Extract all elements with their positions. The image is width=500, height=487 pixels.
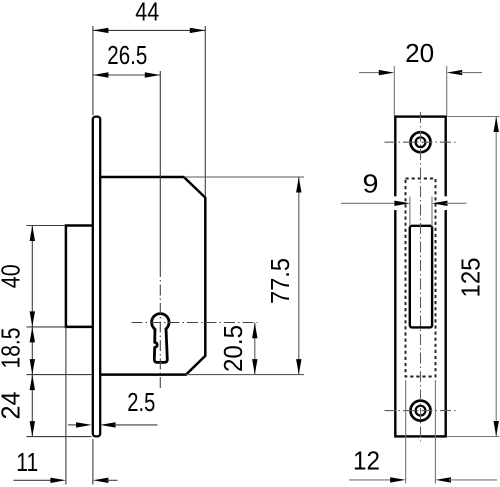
extension lines for 9 (bolt slot) (410, 197, 432, 227)
front view vertical centerline (420, 112, 422, 442)
svg-text:11: 11 (16, 447, 38, 477)
svg-text:20.5: 20.5 (218, 325, 248, 372)
dimension 11 (14, 447, 118, 483)
svg-text:9: 9 (363, 168, 379, 198)
extension line body top to right (184, 176, 304, 178)
striker plate outline (front view) (395, 117, 445, 437)
svg-text:18.5: 18.5 (0, 328, 26, 369)
extension line body right (x=205.3) (204, 26, 206, 196)
bottom screw hole (411, 401, 431, 421)
dimension 12 (349, 446, 497, 483)
label 40 (0, 264, 26, 288)
label 20.5 (218, 325, 248, 372)
dimension 125 (494, 117, 499, 437)
dimension 26.5 (93, 40, 160, 78)
dimension 44 (93, 0, 205, 33)
extension line housing left down (for 11) (65, 327, 67, 485)
svg-text:77.5: 77.5 (265, 258, 295, 304)
dimension 77.5 (296, 177, 301, 375)
breaks in plate edges where dimension 9 crosses (393, 196, 449, 210)
top screw hole (411, 132, 431, 152)
cylinder housing box protruding left (66, 226, 93, 327)
svg-text:2.5: 2.5 (127, 387, 155, 417)
keyhole (152, 314, 169, 363)
bolt slot opening (410, 226, 432, 328)
keyhole horizontal centerline (132, 322, 258, 324)
extension lines for 125 (front view right) (447, 117, 500, 437)
faceplate (side view, thin vertical plate) (93, 117, 100, 437)
svg-text:12: 12 (353, 446, 380, 476)
svg-text:26.5: 26.5 (107, 40, 147, 70)
top screw hole horizontal centerline (385, 141, 457, 143)
dimension 20 (359, 38, 482, 75)
extension line housing bottom (27, 326, 65, 328)
extension line left edge (x=92.9 top) (92, 26, 94, 115)
label 125 (456, 258, 486, 298)
extension line housing top (27, 225, 65, 227)
left vertical dimension line (40 / 18.5 / 24) (30, 226, 35, 437)
svg-text:20: 20 (405, 38, 434, 68)
svg-text:44: 44 (135, 0, 159, 26)
keyhole vertical centerline (159, 71, 161, 391)
extension lines for 12 (hidden case width) (406, 380, 436, 484)
extension line body bottom to left (27, 374, 92, 376)
label 24 (0, 392, 26, 420)
dimension 20.5 (252, 323, 257, 375)
bottom screw hole horizontal centerline (385, 410, 457, 412)
label 18.5 (0, 328, 26, 369)
svg-text:24: 24 (0, 392, 26, 420)
extension lines for 20 (front view top) (394, 66, 446, 116)
dimension 9 (341, 168, 467, 206)
svg-text:125: 125 (456, 258, 486, 298)
svg-text:40: 40 (0, 264, 26, 288)
extension line faceplate left down (for 11) (92, 439, 94, 485)
extension line faceplate bottom (27, 436, 92, 438)
extension line body bottom to right (186, 374, 304, 376)
dimension 2.5 (68, 387, 158, 428)
lock body outline (side view) (100, 177, 206, 375)
label 77.5 (265, 258, 295, 304)
hidden lock case (dashed rectangle) (406, 179, 436, 377)
